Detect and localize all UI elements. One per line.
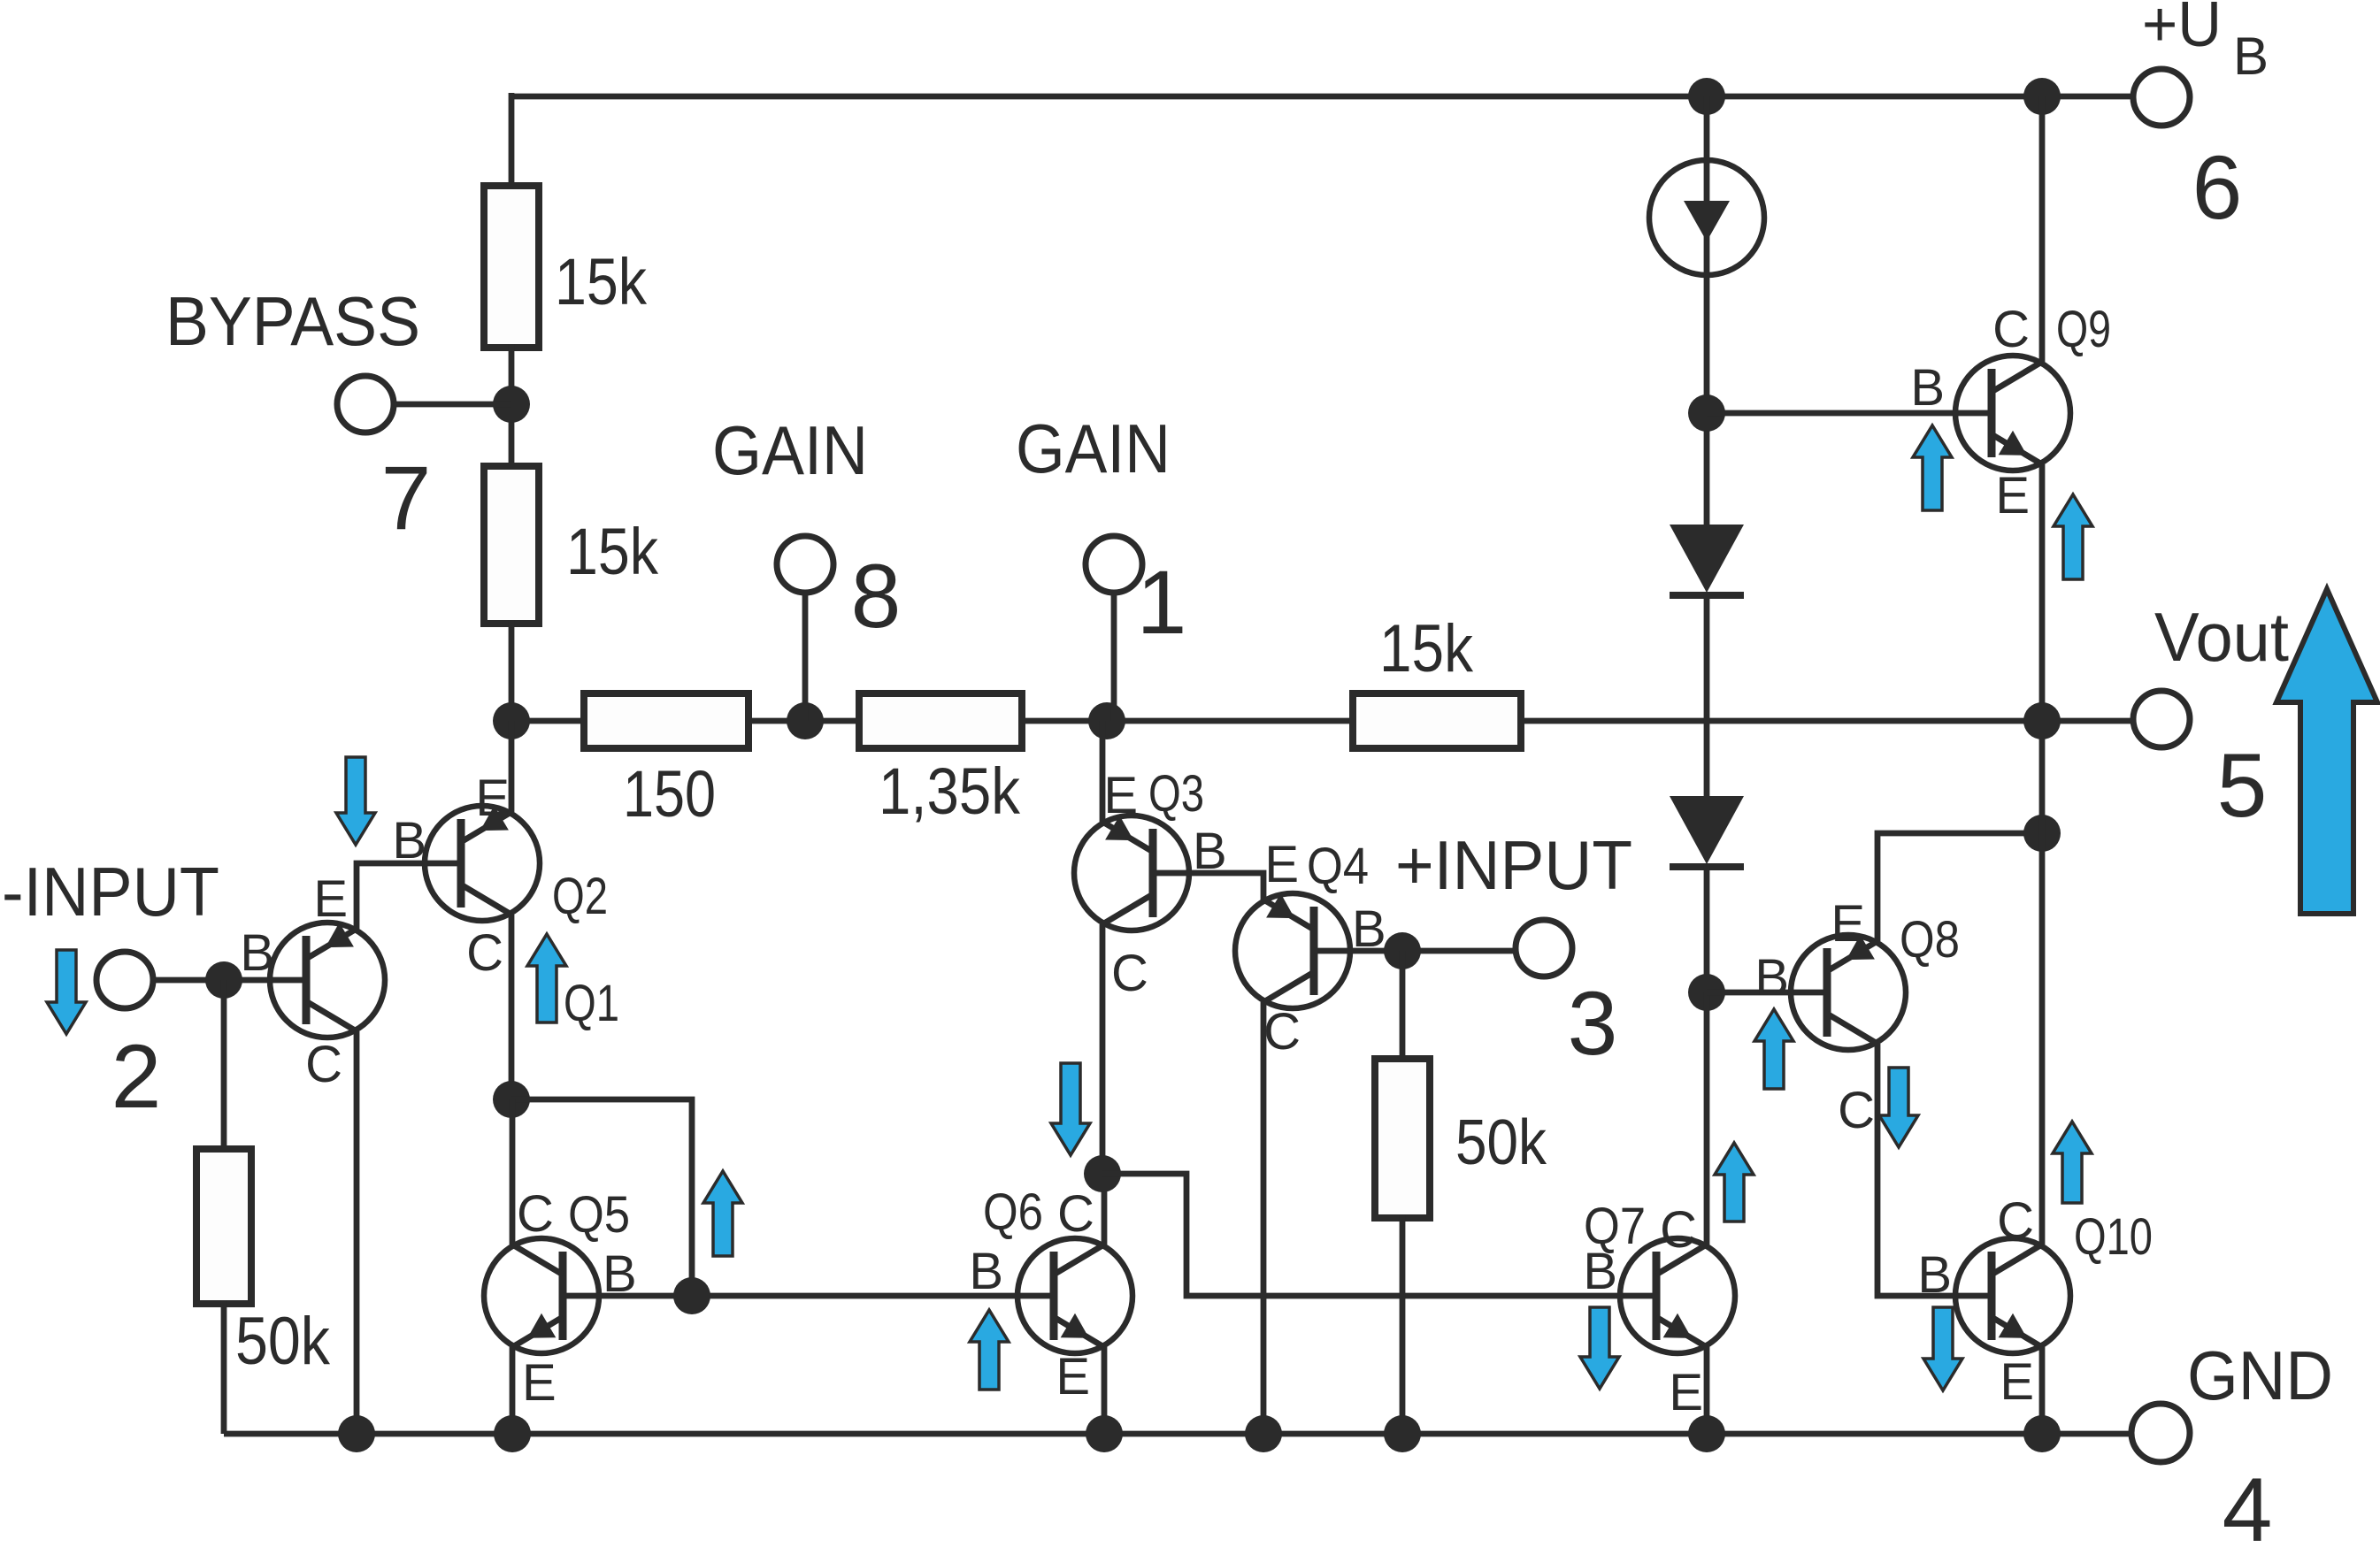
node ground Q4C [1245,1415,1282,1452]
pin number 3 [1568,973,1618,1074]
diode D2 [1670,796,1744,867]
current arrow below Q7 base [1580,1307,1619,1389]
svg-text:B: B [1910,359,1945,417]
svg-text:E: E [1264,836,1299,893]
label Q2 C [466,924,503,982]
svg-text:+INPUT: +INPUT [1395,826,1632,904]
svg-text:Q1: Q1 [564,975,619,1032]
wire Q10 emitter to ground [2039,1347,2046,1434]
pin number 8 [851,546,902,647]
label Q10 B [1917,1246,1952,1304]
svg-text:C: C [1997,1192,2034,1250]
svg-text:B: B [2233,27,2269,86]
resistor R5 15k feedback [1353,693,1521,748]
node bypass junction [493,386,530,423]
resistor R2 15k [484,466,539,624]
terminal pin 1 GAIN [1086,536,1142,593]
value label 50k (R6) [235,1304,331,1379]
wire mid rail [511,718,2133,724]
svg-text:15k: 15k [1379,611,1474,686]
node pin1 junction [1088,702,1125,739]
svg-text:C: C [517,1185,554,1243]
current source I1 [1649,160,1764,275]
label Q7 E [1669,1364,1703,1421]
label Q1 [564,975,619,1032]
wire Q5 emitter to ground [510,1347,516,1434]
svg-text:C: C [466,924,503,982]
terminal pin 4 GND [2131,1404,2190,1462]
svg-text:B: B [392,812,426,869]
label GAIN (pin 8) [712,411,868,489]
label Q7 [1584,1198,1646,1255]
label Q6 C [1057,1185,1094,1243]
svg-text:Q3: Q3 [1148,765,1204,823]
svg-text:E: E [1669,1364,1703,1421]
wire Q9 base wire [1707,410,1994,417]
wire +input node to R7 [1400,951,1406,1062]
terminal pin 3 +INPUT [1516,920,1572,976]
value label 15k (R2) [566,515,659,588]
node +input junction [1384,932,1421,969]
value label 15k (R1) [555,245,648,318]
transistor Q9 [1955,356,2070,471]
svg-text:E: E [313,870,348,928]
node top rail CS junction [1688,78,1725,115]
svg-text:15k: 15k [555,245,648,318]
pin number 1 [1137,552,1187,653]
current arrow at Q3 collector [1051,1063,1090,1155]
pin number 5 [2217,735,2268,836]
pin number 4 [2223,1459,2273,1547]
label UB subscript B [2233,27,2269,86]
svg-text:3: 3 [1568,973,1618,1074]
current arrow at Q9 emitter [2054,494,2092,579]
svg-text:Q2: Q2 [552,868,608,925]
svg-text:7: 7 [381,448,432,548]
node ground Q10E [2023,1415,2061,1452]
wire Vout node down to Q10 C [2039,721,2046,1244]
svg-text:B: B [1583,1243,1617,1300]
label Q9 C [1992,301,2030,358]
current arrow left of Q9 [1913,425,1952,510]
label Q9 B [1910,359,1945,417]
svg-text:E: E [1056,1348,1090,1405]
value label 150 [623,757,716,831]
svg-text:Q8: Q8 [1900,911,1960,969]
label BYPASS [165,282,420,360]
svg-text:6: 6 [2192,137,2243,238]
wire input to Q1 base [153,977,308,984]
label Vout [2154,598,2289,676]
wire R1 to bypass node [509,344,515,470]
svg-text:C: C [1992,301,2030,358]
node Q3C-Q6C junction [1084,1155,1121,1192]
node ground R7 [1384,1415,1421,1452]
svg-text:C: C [1057,1185,1094,1243]
node Vout junction [2023,702,2061,739]
label Q4 C [1263,1003,1301,1061]
pin number 6 [2192,137,2243,238]
wire Q4 base to pin 3 [1314,948,1516,954]
svg-text:Q4: Q4 [1307,838,1369,895]
svg-text:B: B [240,924,274,982]
node ground Q5E [494,1415,531,1452]
wire top rail to current source [1704,96,1710,164]
wire mirror jog upper [511,1099,692,1296]
value label 1,35k [879,754,1021,828]
svg-text:GND: GND [2187,1336,2333,1414]
label Q3 C [1111,945,1148,1002]
transistor Q1 [270,923,385,1038]
wire Q3 base to Q4 emitter [1153,873,1263,902]
svg-text:1: 1 [1137,552,1187,653]
wire input node down to R6 [221,980,227,1153]
svg-text:1,35k: 1,35k [879,754,1021,828]
label Q3 [1148,765,1204,823]
label Q5 [568,1186,630,1244]
transistor Q8 [1791,935,1906,1050]
wire Q6 emitter to ground [1102,1347,1108,1434]
node ground Q1C [338,1415,375,1452]
wire R7 to ground rail [1400,1214,1406,1434]
wire Q4 collector to ground [1261,1002,1267,1434]
label Q2 E [475,770,510,827]
transistor Q10 [1955,1238,2070,1353]
svg-text:GAIN: GAIN [1016,410,1171,487]
wire Q2 emitter to mid rail [509,721,515,812]
svg-text:50k: 50k [1455,1107,1547,1178]
label Q6 [983,1183,1043,1241]
label Q8 E [1831,895,1865,953]
transistor Q5 [484,1238,599,1353]
diode D1 [1670,525,1744,595]
svg-text:8: 8 [851,546,902,647]
node D2-Q7C-Q8B junction [1688,974,1725,1011]
svg-text:B: B [1917,1246,1952,1304]
label Q7 C [1660,1201,1697,1259]
label Q7 B [1583,1243,1617,1300]
wire Q8 collector to Q10 base [1877,1044,1994,1296]
svg-text:Q9: Q9 [2056,301,2111,358]
wire Q1 emitter up to Q2 base [357,863,464,929]
label Q9 [2056,301,2111,358]
pin number 7 [381,448,432,548]
label +U [2142,0,2222,60]
label Q4 B [1352,900,1386,958]
resistor R7 50k [1375,1059,1430,1218]
wire Q7 emitter to ground [1704,1347,1710,1434]
svg-text:Vout: Vout [2154,598,2289,676]
svg-text:BYPASS: BYPASS [165,282,420,360]
current arrow at Q2 collector [527,934,566,1022]
current arrow at Q6 base [970,1310,1009,1390]
resistor R4 1,35k [859,693,1022,748]
node pin8 junction [787,702,824,739]
label Q10 C [1997,1192,2034,1250]
svg-text:C: C [1111,945,1148,1002]
svg-text:E: E [1103,767,1138,824]
svg-text:E: E [1831,895,1865,953]
value label 50k (R7) [1455,1107,1547,1178]
svg-text:+U: +U [2142,0,2222,60]
current arrow in mirror jog [703,1171,742,1256]
label Q8 [1900,911,1960,969]
svg-text:Q6: Q6 [983,1183,1043,1241]
wire current source to D1 [1704,275,1710,528]
current arrow Vout big [2276,589,2377,914]
label Q2 B [392,812,426,869]
label Q10 [2074,1208,2153,1266]
wire Q3 collector down [1100,924,1106,1177]
node Q2C-Q5C junction [493,1081,530,1118]
wire R2 to mid rail [509,620,515,721]
wire Q6 collector up [1102,1174,1108,1244]
resistor R3 150 [584,693,749,748]
terminal pin 7 BYPASS [337,376,394,433]
wire D2 to Q8 base node [1704,864,1710,996]
wire Q5 base to Q6 base [563,1293,1054,1299]
svg-text:2: 2 [111,1026,162,1127]
label Q6 E [1056,1348,1090,1405]
node ground Q7E [1688,1415,1725,1452]
current arrow above Q10 collector [2053,1122,2092,1203]
pin number 2 [111,1026,162,1127]
svg-text:-INPUT: -INPUT [2,853,219,930]
current arrow at -input [47,950,86,1034]
terminal pin 8 GAIN [777,536,833,593]
wire Q8 emitter up to rail [1877,833,2042,941]
svg-text:B: B [1754,949,1789,1007]
wire Q1 collector to ground [354,1031,360,1434]
label GAIN (pin 1) [1016,410,1171,487]
node ground Q6E [1086,1415,1123,1452]
label Q5 C [517,1185,554,1243]
svg-text:B: B [969,1243,1003,1300]
wire bypass stub [392,402,511,408]
wire D1 to D2 [1704,593,1710,800]
label Q10 E [2000,1353,2034,1411]
wire Q9 emitter to Vout node [2039,464,2046,721]
wire ground rail [224,1431,2131,1437]
transistor Q6 [1017,1238,1132,1353]
svg-text:50k: 50k [235,1304,331,1379]
svg-text:Q5: Q5 [568,1186,630,1244]
wire jog to Q7 base [1102,1174,1658,1296]
node Q8E-rail junction [2023,815,2061,852]
label Q1 C [305,1036,342,1093]
label Q6 B [969,1243,1003,1300]
svg-text:E: E [1995,467,2030,525]
svg-text:E: E [2000,1353,2034,1411]
current arrow at Q8 collector [1879,1068,1918,1147]
label +INPUT [1395,826,1632,904]
terminal pin 6 +UB [2133,69,2190,126]
label Q4 [1307,838,1369,895]
svg-text:GAIN: GAIN [712,411,868,489]
wire top-left corner down to R1 [509,93,515,189]
wire Q3 emitter to pin1 node [1100,721,1106,822]
node -input junction [205,961,242,999]
wire R6 to ground rail [221,1300,227,1434]
wire Q7 collector up [1704,992,1710,1244]
svg-text:15k: 15k [566,515,659,588]
value label 15k (R5) [1379,611,1474,686]
label Q1 E [313,870,348,928]
wire Q8 base wire [1707,990,1827,996]
label Q3 E [1103,767,1138,824]
svg-text:4: 4 [2223,1459,2273,1547]
label Q5 B [603,1245,637,1303]
svg-text:C: C [1660,1201,1697,1259]
wire pin 1 stem [1111,591,1117,721]
wire Q5 collector up [510,1099,516,1244]
wire right rail top to Q9 C [2039,96,2046,362]
wire pin 8 stem [802,591,809,721]
label Q2 [552,868,608,925]
svg-text:E: E [475,770,510,827]
node Q5-Q6 base junction [673,1277,710,1314]
transistor Q7 [1620,1238,1735,1353]
label Q9 E [1995,467,2030,525]
node CS-Q9B junction [1688,394,1725,432]
transistor Q4 [1235,893,1350,1008]
svg-text:150: 150 [623,757,716,831]
label Q8 B [1754,949,1789,1007]
current arrow below Q8 base [1754,1009,1793,1089]
node top rail right junction [2023,78,2061,115]
current arrow at Q7 collector [1715,1143,1754,1222]
svg-text:C: C [305,1036,342,1093]
terminal pin 2 -INPUT [96,952,153,1008]
label Q8 C [1838,1082,1875,1139]
label -INPUT [2,853,219,930]
current arrow above Q2 base [336,757,375,845]
node mid-rail left junction [493,702,530,739]
label Q4 E [1264,836,1299,893]
svg-text:C: C [1263,1003,1301,1061]
resistor R1 15k [484,186,539,348]
resistor R6 50k [196,1149,251,1304]
terminal pin 5 Vout [2133,691,2190,747]
transistor Q3 [1074,816,1189,930]
label GND [2187,1336,2333,1414]
wire Q2 collector down [509,915,515,1103]
label Q5 E [522,1354,557,1412]
svg-text:5: 5 [2217,735,2268,836]
label Q1 B [240,924,274,982]
svg-text:C: C [1838,1082,1875,1139]
wire +UB top rail [511,94,2130,100]
label Q3 B [1193,823,1227,880]
transistor Q2 [425,806,540,921]
current arrow left of Q10 [1923,1307,1962,1390]
svg-text:E: E [522,1354,557,1412]
svg-text:Q10: Q10 [2074,1208,2153,1266]
